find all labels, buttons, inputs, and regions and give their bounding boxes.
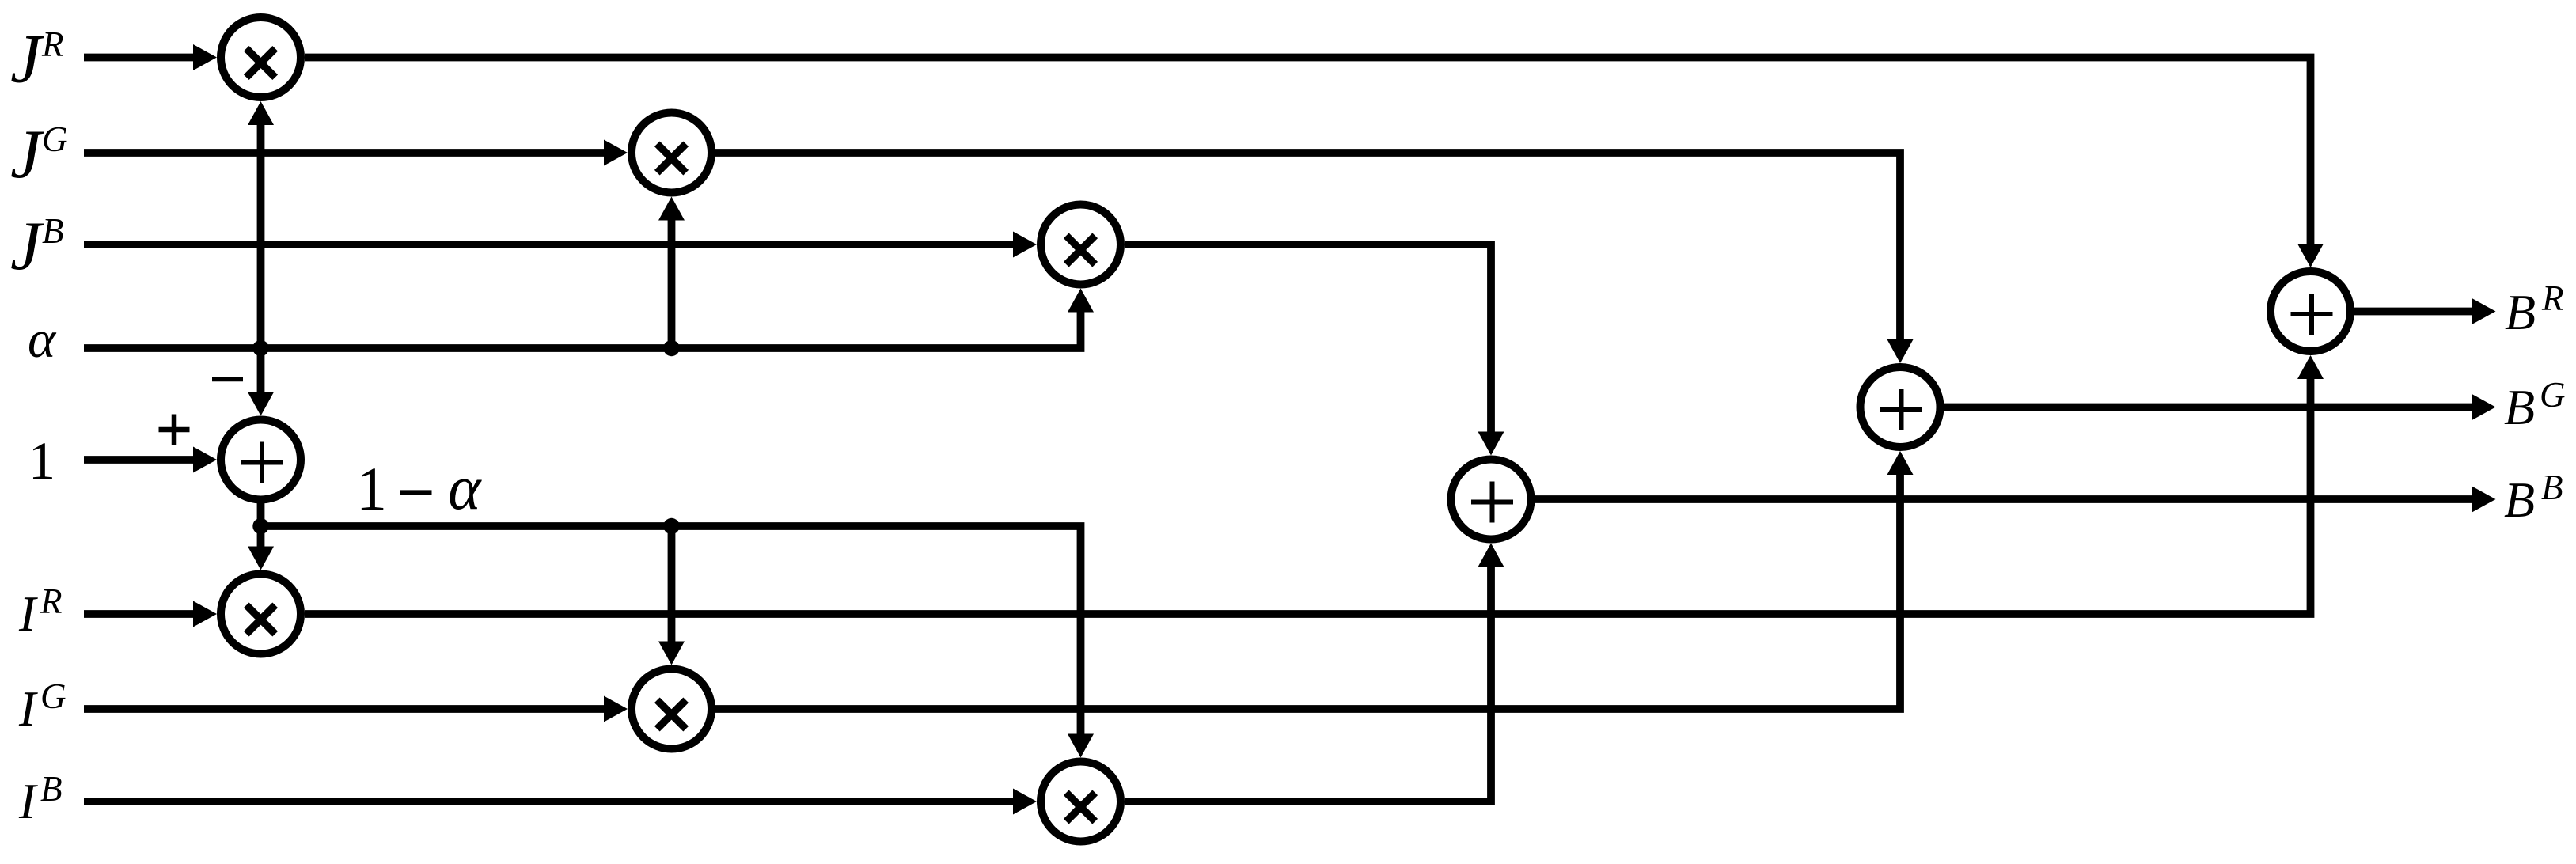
node 1-alpha junction at column 1 [252,518,268,534]
wire B^G output [1944,404,2474,411]
svg-text:B: B [40,769,63,809]
svg-text:G: G [40,676,66,716]
svg-text:1: 1 [356,454,387,523]
svg-text:R: R [41,25,64,64]
wire J^G product to B^G adder [715,153,1900,341]
adder A1 (1 - alpha) [221,420,301,500]
wire alpha up to multiplier 2 [668,219,676,349]
svg-text:J: J [10,21,44,98]
wire J^R input [84,54,195,62]
label plus sign at adder A1 input [159,415,190,445]
svg-text:B: B [42,211,64,251]
svg-text:R: R [2541,279,2564,318]
multiplier M2 (J^G x alpha) [632,113,711,193]
node alpha junction at column 2 [663,340,679,356]
wire 1-alpha down to I^G multiplier [668,526,676,643]
wire J^G input [84,149,605,157]
svg-text:I: I [18,773,38,829]
svg-text:B: B [2541,468,2563,507]
wire 1-alpha down to I^R multiplier [257,526,265,548]
multiplier M4 (I^R x 1-alpha) [221,574,301,654]
multiplier M1 (J^R x alpha) [221,17,301,97]
svg-text:I: I [18,680,38,737]
wire J^B input [84,241,1015,248]
svg-text:B: B [2505,284,2536,340]
svg-text:R: R [40,582,63,621]
wire constant 1 input [84,456,195,464]
wire I^R input [84,610,195,618]
wire alpha bus [84,311,1081,349]
wire J^R product to B^R adder [305,58,2311,246]
multiplier M5 (I^G x 1-alpha) [632,669,711,749]
adder A3 (B^G sum) [1861,367,1941,447]
wire I^G product to B^G adder [715,473,1900,709]
node 1-alpha junction at column 2 [663,518,679,534]
multiplier M3 (J^B x alpha) [1041,205,1121,285]
wire B^R output [2354,308,2474,316]
svg-text:I: I [18,585,38,642]
label minus sign at adder A1 input [212,377,243,382]
svg-text:α: α [28,310,57,369]
wire I^G input [84,705,605,713]
wire I^B product to B^B adder [1125,566,1491,802]
wire I^B input [84,798,1015,805]
wire B^B output [1535,495,2474,503]
multiplier M6 (I^B x 1-alpha) [1041,762,1121,842]
svg-text:J: J [10,208,44,285]
wire I^R product to B^R adder [305,377,2311,614]
svg-text:B: B [2504,472,2535,528]
svg-text:B: B [2504,379,2535,435]
svg-text:J: J [10,116,44,193]
adder A2 (B^B sum) [1451,460,1531,540]
adder A4 (B^R sum) [2271,271,2350,351]
svg-text:1: 1 [28,430,55,491]
node alpha junction at column 1 [252,340,268,356]
svg-text:G: G [2540,375,2566,415]
svg-text:α: α [448,454,482,523]
wire alpha down to adder 1 (minus input) [257,348,265,394]
wire 1-alpha bus [261,502,1081,736]
svg-text:G: G [42,119,68,159]
wire J^B product to B^B adder [1125,244,1491,434]
wire alpha up to multiplier 1 [257,123,265,348]
